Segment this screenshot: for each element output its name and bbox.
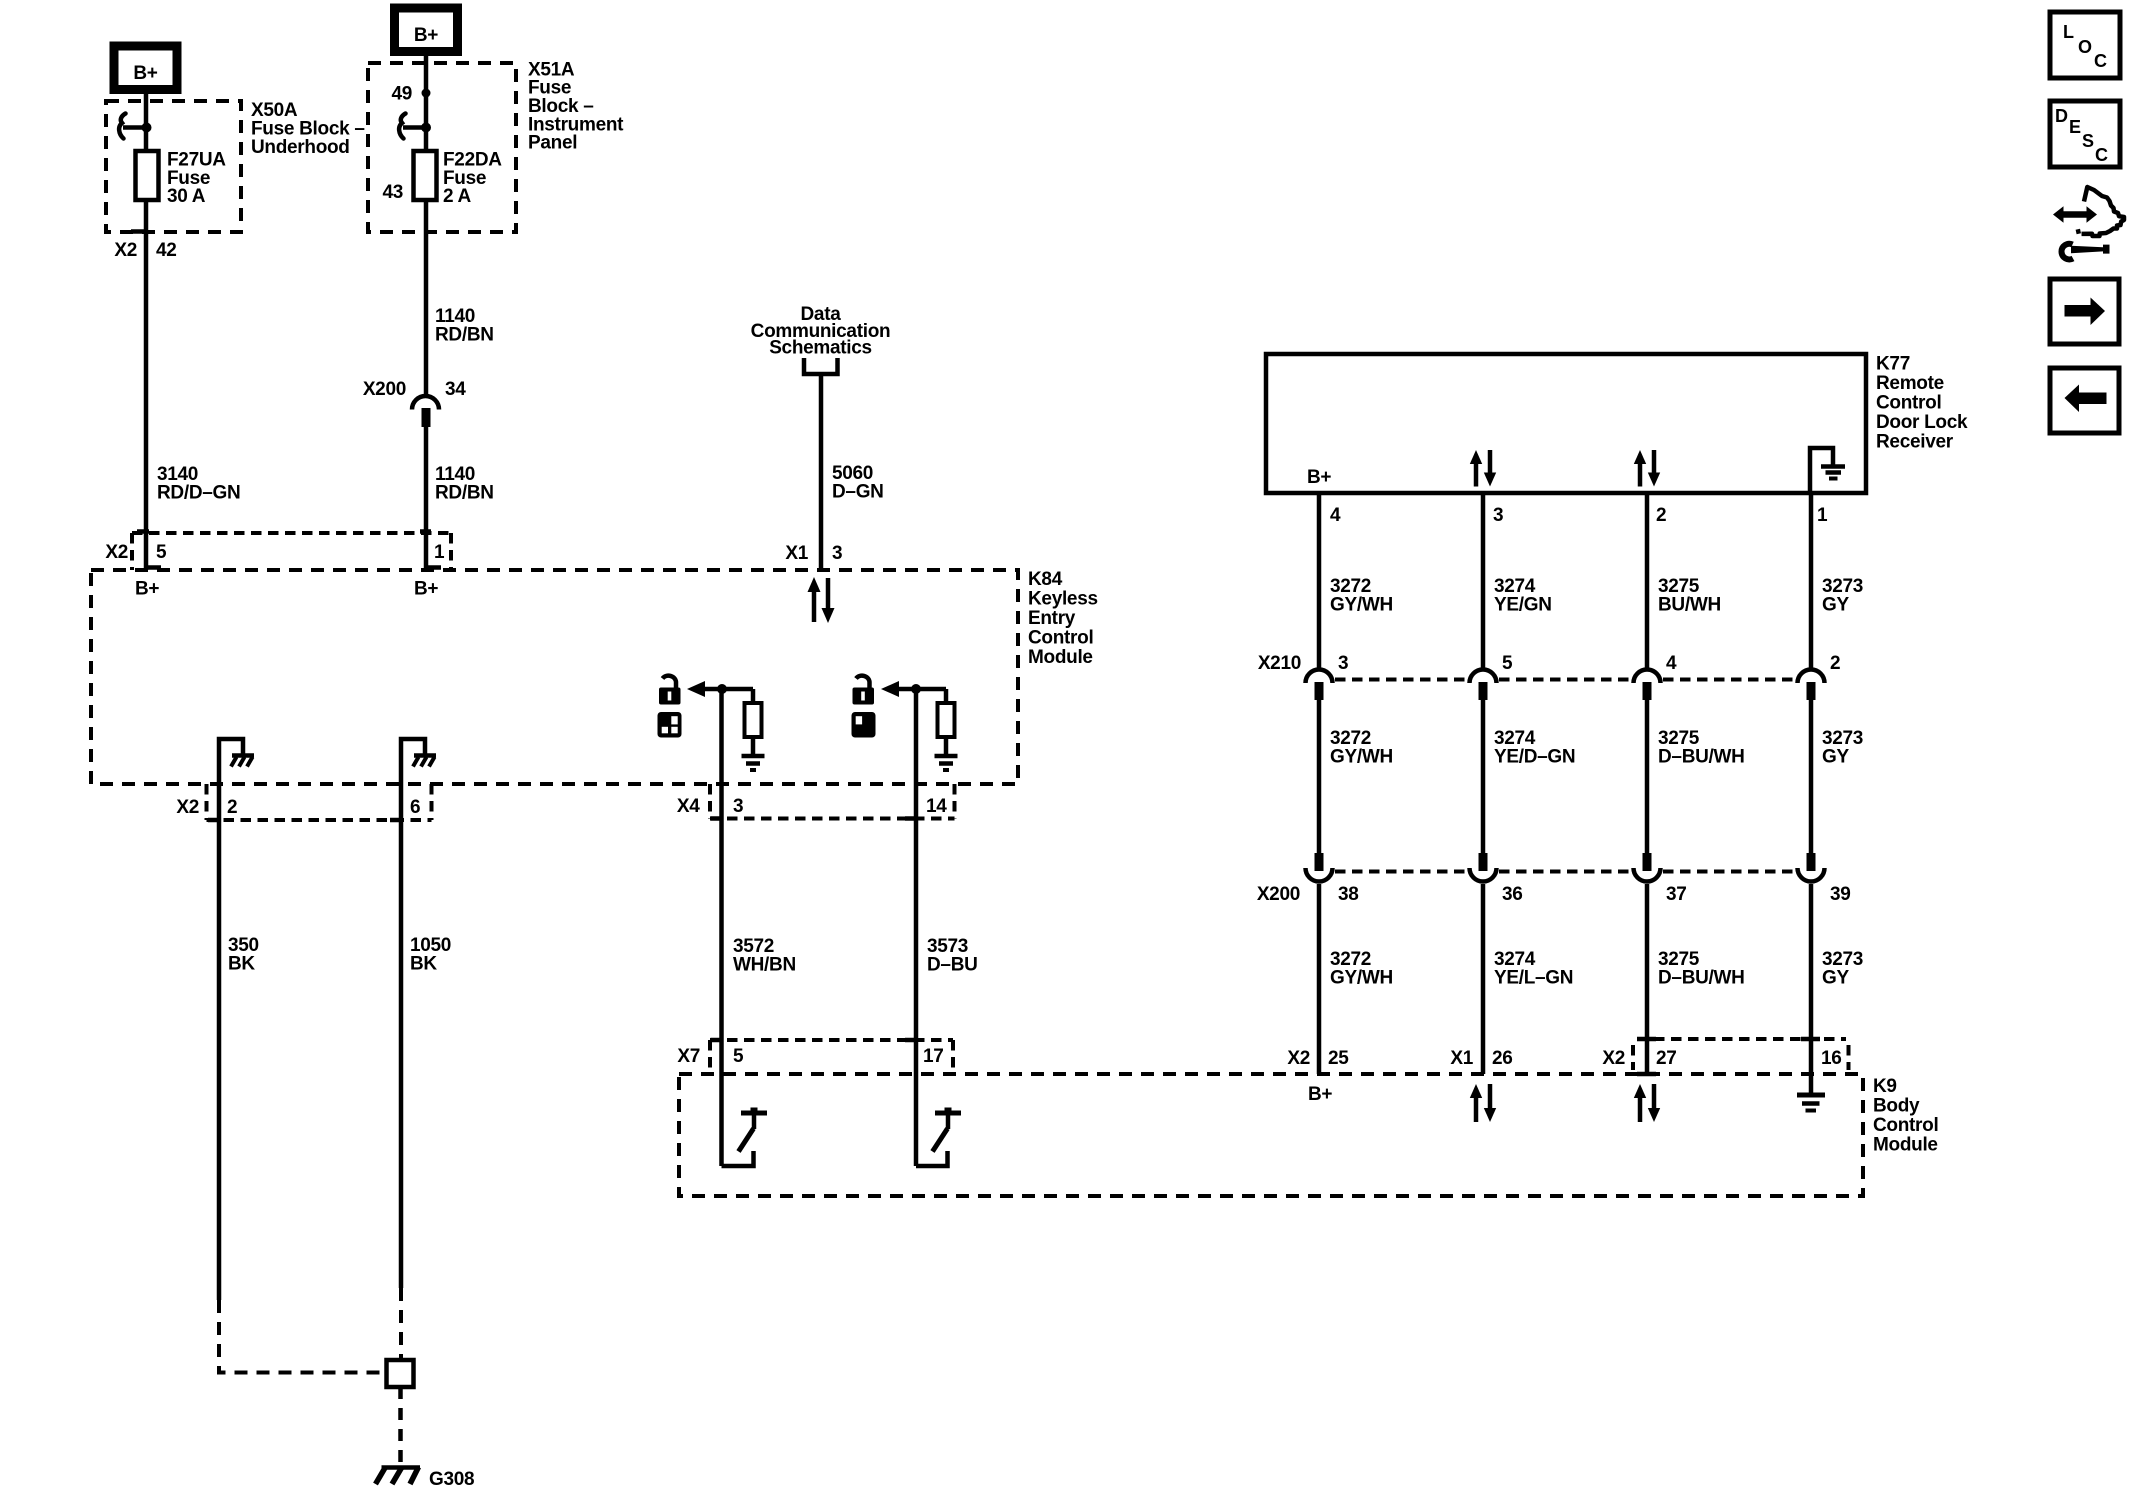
svg-text:X2: X2 — [105, 542, 128, 563]
X210 connector 2 — [1798, 670, 1825, 701]
X200 connector 39 — [1798, 853, 1825, 882]
wrench icon — [2062, 244, 2110, 260]
svg-text:Module: Module — [1873, 1135, 1938, 1156]
wire X210-3 to X200-38 — [1317, 700, 1322, 853]
svg-text:39: 39 — [1830, 884, 1851, 905]
svg-text:C: C — [2094, 51, 2107, 71]
wire K77 pin 2 to X210-4 — [1645, 493, 1650, 668]
fuse holder terminal hook 2 — [399, 114, 431, 139]
fuse holder terminal hook — [119, 114, 151, 139]
wire label 3275 BU/WH row1 — [1658, 576, 1721, 616]
svg-text:Panel: Panel — [528, 133, 577, 154]
pin 17 tick at X7 dotted line — [905, 1038, 916, 1043]
inline connector X200 pin 34 — [363, 379, 466, 427]
serial arrows inside K9 (pin 27) — [1634, 1084, 1660, 1122]
svg-text:X7: X7 — [677, 1046, 700, 1067]
pin 14 tick at dotted line — [905, 816, 916, 821]
connector dotted box X2 pins 2 6 — [207, 784, 432, 820]
svg-text:K77: K77 — [1876, 354, 1910, 375]
X210 dotted link 5-4 — [1499, 678, 1631, 682]
wire X200-36 to K9 X1-26 — [1481, 884, 1486, 1074]
svg-text:GY/WH: GY/WH — [1330, 747, 1393, 768]
wire label 3274 YE/GN row1 — [1494, 576, 1552, 616]
pin tick at X2 42 — [131, 229, 146, 234]
vehicle diagnostic icon with double arrow — [2053, 187, 2124, 236]
svg-text:X1: X1 — [785, 543, 808, 564]
svg-text:4: 4 — [1330, 505, 1341, 526]
svg-text:X2: X2 — [176, 797, 199, 818]
connector label X2 42 — [114, 240, 176, 261]
svg-text:G308: G308 — [429, 1469, 474, 1490]
K9 pin labels X2 25 X1 26 X2 27 16 — [1287, 1048, 1841, 1069]
X200 dotted link 38-36 — [1335, 870, 1467, 874]
fuse block X50A dashed box — [106, 101, 241, 232]
pin label X2 5 — [105, 542, 167, 563]
wire K77 pin 3 to X210-5 — [1481, 493, 1486, 668]
X200 connector 38 — [1306, 853, 1333, 882]
dashed wire 350 BK to splice — [219, 1300, 386, 1373]
pin 5 tick at dotted line — [137, 529, 149, 534]
svg-text:X1: X1 — [1450, 1048, 1473, 1069]
wire 3573 D-BU (X4-14 to X7-17) — [914, 784, 919, 1074]
wire X210-4 to X200-37 — [1645, 700, 1650, 853]
ground symbol inside K9 (pin 16) — [1797, 1074, 1825, 1111]
serial arrows inside K77 (pin 2) — [1634, 450, 1660, 487]
svg-text:GY: GY — [1822, 968, 1849, 989]
svg-text:43: 43 — [382, 182, 403, 203]
wire K77 pin 1 to X210-2 — [1809, 493, 1814, 668]
wire label 3572 WH/BN — [733, 936, 796, 976]
svg-text:S: S — [2082, 131, 2094, 151]
svg-text:D–BU/WH: D–BU/WH — [1658, 968, 1745, 989]
ground below resistor (right group) — [935, 737, 958, 770]
module K9 Body Control Module dashed box — [679, 1074, 1863, 1196]
ground symbol inside K84 (pin 6 branch) — [401, 739, 436, 767]
svg-text:Underhood: Underhood — [251, 137, 350, 158]
wire label 3273 GY row3 — [1822, 949, 1863, 989]
svg-text:X4: X4 — [677, 796, 700, 817]
svg-text:Keyless: Keyless — [1028, 589, 1098, 610]
switch (lock, inside K9) — [722, 1074, 768, 1166]
svg-text:D–BU: D–BU — [927, 955, 978, 976]
svg-text:Remote: Remote — [1876, 373, 1944, 394]
svg-text:GY/WH: GY/WH — [1330, 595, 1393, 616]
svg-text:38: 38 — [1338, 884, 1359, 905]
svg-text:Receiver: Receiver — [1876, 432, 1954, 453]
fuse block X51A dashed box — [368, 63, 516, 232]
svg-text:1: 1 — [434, 542, 445, 563]
svg-text:B+: B+ — [414, 25, 438, 46]
svg-text:Control: Control — [1028, 628, 1093, 649]
svg-text:3: 3 — [733, 796, 743, 817]
unlock padlock icon (right group) — [853, 676, 875, 705]
svg-text:14: 14 — [926, 796, 947, 817]
wire fuse to connector X2-42 — [144, 200, 149, 570]
pin 2 tick at dotted line — [208, 818, 219, 823]
svg-text:3: 3 — [1338, 653, 1348, 674]
wire label 350 BK — [228, 935, 259, 975]
wire unlock signal to X4 pin 14 — [914, 689, 919, 784]
svg-text:Module: Module — [1028, 647, 1093, 668]
wire X200 to K84 pin 1 — [424, 427, 429, 570]
svg-text:2: 2 — [1830, 653, 1840, 674]
svg-text:42: 42 — [156, 240, 177, 261]
svg-text:RD/D–GN: RD/D–GN — [157, 483, 240, 504]
wire 5060 D-GN — [819, 374, 824, 570]
wire 350 BK (pin 2 to splice) — [217, 760, 222, 1300]
wire label 3274 YE/D-GN row2 — [1494, 728, 1575, 768]
svg-text:2: 2 — [227, 797, 237, 818]
svg-text:D–BU/WH: D–BU/WH — [1658, 747, 1745, 768]
connector dotted box X7 pins 5 17 — [710, 1040, 953, 1074]
svg-text:B+: B+ — [133, 63, 157, 84]
fuse F22DA 2 A — [414, 150, 503, 208]
K84 label — [1028, 569, 1098, 668]
svg-text:L: L — [2063, 22, 2074, 42]
wire 3572 WH/BN (X4-3 to X7-5) — [719, 784, 724, 1074]
DESC navigation box — [2050, 101, 2120, 167]
lock state indicator square (left group, unlocked) — [658, 712, 682, 738]
svg-text:27: 27 — [1656, 1048, 1677, 1069]
svg-text:X2: X2 — [1602, 1048, 1625, 1069]
K77 label — [1876, 354, 1968, 453]
svg-text:4: 4 — [1666, 653, 1677, 674]
svg-text:Control: Control — [1876, 393, 1941, 414]
B+ battery feed symbol 2 — [395, 8, 458, 52]
pin 5 tick at X7 dotted line — [711, 1038, 722, 1043]
ground symbol inside K84 (pin 2 branch) — [219, 739, 254, 767]
svg-text:34: 34 — [445, 379, 466, 400]
serial data arrows below X1 3 — [808, 577, 835, 623]
switch (unlock, inside K9) — [916, 1074, 961, 1166]
wire label 3273 GY row1 — [1822, 576, 1863, 616]
svg-text:1: 1 — [1817, 505, 1828, 526]
resistor (right group) — [938, 689, 955, 737]
X210 dotted link 3-5 — [1335, 678, 1467, 682]
svg-text:16: 16 — [1821, 1048, 1842, 1069]
module K84 Keyless Entry Control Module dashed box — [91, 570, 1018, 784]
wire B+ to fuse F27UA — [144, 89, 149, 151]
serial arrows inside K77 (pin 3) — [1470, 450, 1496, 487]
svg-text:RD/BN: RD/BN — [435, 325, 494, 346]
svg-text:B+: B+ — [1307, 467, 1331, 488]
svg-text:30 A: 30 A — [167, 186, 206, 207]
svg-text:GY: GY — [1822, 747, 1849, 768]
wire K77 pin 4 to X210-3 — [1317, 493, 1322, 668]
svg-text:3: 3 — [1493, 505, 1503, 526]
connector dotted box X4 pins 3 14 — [710, 784, 955, 819]
back navigation box (left arrow) — [2050, 368, 2119, 433]
wire label 3573 D-BU — [927, 936, 978, 976]
svg-text:B+: B+ — [414, 579, 438, 600]
svg-text:BU/WH: BU/WH — [1658, 595, 1721, 616]
connector dotted box X2 pin 5 / pin 1 — [132, 533, 451, 570]
svg-text:X210: X210 — [1258, 653, 1301, 674]
svg-text:17: 17 — [923, 1046, 944, 1067]
LOC navigation box — [2050, 12, 2120, 78]
svg-text:YE/L–GN: YE/L–GN — [1494, 968, 1573, 989]
wire label 3273 GY row2 — [1822, 728, 1863, 768]
pin tick wire 27 at border — [1637, 1072, 1656, 1077]
wire X200-38 to K9 X2-25 — [1317, 884, 1322, 1074]
resistor (left group) — [745, 689, 762, 737]
pin tick wire 27 top — [1637, 1037, 1656, 1042]
wire X200-37 to K9 X2-27 — [1645, 884, 1650, 1074]
pin 49 label and junction — [391, 84, 430, 105]
lock drive arrow (right group) — [881, 681, 946, 697]
svg-text:X2: X2 — [114, 240, 137, 261]
X210 connector 5 — [1470, 670, 1497, 701]
svg-text:5: 5 — [1502, 653, 1513, 674]
svg-text:49: 49 — [391, 84, 412, 105]
K77 pin labels 4 3 2 1 — [1330, 505, 1828, 526]
pin tick wire 16 top — [1801, 1037, 1820, 1042]
forward navigation box (right arrow) — [2050, 279, 2119, 344]
svg-text:Control: Control — [1873, 1115, 1938, 1136]
svg-text:B+: B+ — [135, 579, 159, 600]
svg-text:Schematics: Schematics — [769, 338, 872, 359]
svg-text:X200: X200 — [363, 379, 406, 400]
pin label X1 3 — [785, 543, 842, 564]
X51A label — [528, 60, 624, 154]
pin 3 tick at dotted line — [711, 816, 722, 821]
svg-text:Body: Body — [1873, 1096, 1920, 1117]
X200 connector 36 — [1470, 853, 1497, 882]
svg-text:D: D — [2055, 106, 2068, 126]
svg-text:O: O — [2078, 37, 2092, 57]
svg-text:36: 36 — [1502, 884, 1523, 905]
ground below resistor (left group) — [742, 737, 765, 770]
unlock drive arrow (left group) — [687, 681, 753, 697]
pin 5 foot tick — [146, 565, 161, 570]
wire fuse F22DA down to X200 — [424, 200, 429, 396]
X200 connector 37 — [1634, 853, 1661, 882]
svg-text:3: 3 — [832, 543, 842, 564]
B+ battery feed symbol 1 — [114, 46, 177, 90]
wire label 3272 GY/WH row3 — [1330, 949, 1393, 989]
Data Communication Schematics reference — [751, 304, 891, 374]
wire label 3272 GY/WH row1 — [1330, 576, 1393, 616]
wire label 3274 YE/L-GN row3 — [1494, 949, 1573, 989]
wire lock signal to X4 pin 3 — [719, 689, 724, 784]
svg-text:5: 5 — [156, 542, 167, 563]
wire label 3275 D-BU/WH row3 — [1658, 949, 1745, 989]
inline connector row X200 labels — [1257, 884, 1851, 905]
X50A label — [251, 100, 365, 158]
svg-text:6: 6 — [410, 797, 420, 818]
X200 dotted link 37-39 — [1663, 870, 1795, 874]
wire 1050 BK (pin 6 down) — [399, 760, 404, 1288]
inline connector row X210 — [1258, 653, 1840, 674]
svg-text:Entry: Entry — [1028, 608, 1076, 629]
dashed wire 1050 BK to splice — [399, 1288, 403, 1360]
lock state indicator square (right group, locked) — [852, 712, 876, 738]
wire label 1050 BK — [410, 935, 451, 975]
pin labels X2 2 6 — [176, 797, 420, 818]
wire label 1140 RD/BN upper — [435, 306, 494, 346]
pin labels X4 3 14 — [677, 796, 947, 817]
svg-text:2 A: 2 A — [443, 186, 472, 207]
svg-text:YE/GN: YE/GN — [1494, 595, 1552, 616]
svg-text:Door Lock: Door Lock — [1876, 412, 1968, 433]
svg-text:K9: K9 — [1873, 1076, 1897, 1097]
K9 label — [1873, 1076, 1938, 1156]
svg-text:25: 25 — [1328, 1048, 1349, 1069]
module K77 Remote Control Door Lock Receiver box — [1266, 354, 1866, 493]
ground G308 — [376, 1467, 475, 1490]
wire X200-39 to K9 16 — [1809, 884, 1814, 1074]
svg-text:BK: BK — [228, 954, 255, 975]
wire label 3275 D-BU/WH row2 — [1658, 728, 1745, 768]
svg-text:26: 26 — [1492, 1048, 1513, 1069]
serial arrows inside K9 (pin 26) — [1470, 1084, 1496, 1122]
wire label 3272 GY/WH row2 — [1330, 728, 1393, 768]
svg-text:K84: K84 — [1028, 569, 1063, 590]
svg-text:GY: GY — [1822, 595, 1849, 616]
wire label 1140 RD/BN lower — [435, 464, 494, 504]
svg-text:X200: X200 — [1257, 884, 1300, 905]
wire label 3140 RD/D-GN — [157, 464, 240, 504]
wire X210-5 to X200-36 — [1481, 700, 1486, 853]
svg-text:GY/WH: GY/WH — [1330, 968, 1393, 989]
connector dotted box X2 pins 27 16 — [1633, 1039, 1849, 1070]
svg-text:2: 2 — [1656, 505, 1666, 526]
wire label 5060 D-GN — [832, 463, 884, 503]
wire B+ to fuse F22DA — [424, 51, 429, 151]
X200 dotted link 36-37 — [1499, 870, 1631, 874]
svg-text:YE/D–GN: YE/D–GN — [1494, 747, 1575, 768]
dashed wire splice to G308 — [398, 1387, 403, 1464]
svg-text:RD/BN: RD/BN — [435, 483, 494, 504]
fuse F27UA 30 A — [136, 150, 227, 208]
pin 1 foot tick — [426, 565, 441, 570]
svg-text:E: E — [2069, 117, 2081, 137]
pin 1 tick at dotted line — [420, 529, 431, 534]
splice connector square — [387, 1360, 414, 1387]
pin 6 tick at dotted line — [390, 818, 401, 823]
svg-text:5: 5 — [733, 1046, 744, 1067]
svg-text:C: C — [2095, 145, 2108, 165]
X210 dotted link 4-2 — [1663, 678, 1795, 682]
wire X210-2 to X200-39 — [1809, 700, 1814, 853]
svg-text:B+: B+ — [1308, 1084, 1332, 1105]
svg-text:37: 37 — [1666, 884, 1687, 905]
ground symbol inside K77 (pin 1) — [1810, 448, 1845, 493]
svg-text:WH/BN: WH/BN — [733, 955, 796, 976]
svg-text:BK: BK — [410, 954, 437, 975]
X210 connector 3 — [1306, 670, 1333, 701]
X210 connector 4 — [1634, 670, 1661, 701]
svg-text:X2: X2 — [1287, 1048, 1310, 1069]
svg-text:D–GN: D–GN — [832, 482, 884, 503]
unlock padlock icon (left group) — [659, 676, 681, 705]
pin labels X7 5 17 — [677, 1046, 943, 1067]
